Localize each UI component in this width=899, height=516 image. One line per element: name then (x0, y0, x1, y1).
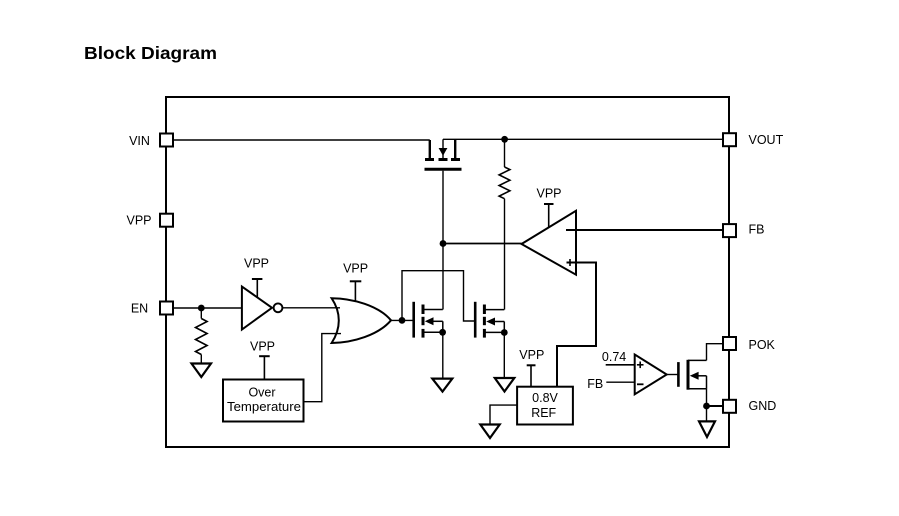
svg-text:0.74: 0.74 (602, 350, 626, 364)
wire: VIN rail left segment (174, 139, 430, 141)
svg-text:0.8V: 0.8V (532, 391, 558, 405)
svg-text:VPP: VPP (250, 340, 275, 354)
node: Q3 source/body (439, 329, 446, 336)
wire: REF ground lead (490, 405, 517, 424)
pin FB (723, 224, 736, 237)
wire: inverter output to OR gate (282, 307, 340, 309)
inverter U4 (242, 287, 272, 330)
node: gate drive junction (440, 240, 447, 247)
svg-text:VPP: VPP (244, 257, 269, 271)
wire: EN pulldown top lead (200, 308, 202, 319)
ground (GND pin) (699, 421, 715, 437)
svg-text:VPP: VPP (536, 187, 561, 201)
svg-text:Temperature: Temperature (227, 400, 301, 414)
transistor Q2 POK open-drain NMOS (678, 360, 706, 390)
transistor Q1 pass PMOS (425, 139, 462, 169)
svg-text:GND: GND (749, 399, 777, 413)
ground (EN pulldown) (192, 364, 212, 378)
wire: Q3 source to ground (442, 332, 444, 378)
wire: FB pin to U1 inverting input (566, 229, 723, 231)
wire: Q1 gate lead down to node (442, 171, 444, 244)
wire: comparator output to Q2 gate (667, 374, 679, 376)
resistor R1 (gate pull) (499, 167, 510, 199)
wire: Q2 source to GND node (706, 389, 708, 406)
ground (Q4) (495, 378, 515, 392)
node: gate split junction (399, 317, 406, 324)
svg-text:REF: REF (531, 406, 556, 420)
wire: OR output to Q3 gate (391, 319, 413, 321)
block: 0.8V REF (517, 387, 573, 425)
svg-text:VOUT: VOUT (749, 133, 784, 147)
U2 plus label (637, 362, 644, 369)
wire: resistor top lead (504, 139, 506, 167)
wire: R2 to ground (200, 355, 202, 364)
comparator U2 POK (635, 355, 667, 395)
svg-text:Over: Over (248, 386, 275, 400)
svg-text:FB: FB (587, 377, 603, 391)
block: Over Temperature (223, 380, 304, 422)
node: GND junction (703, 403, 710, 410)
pin GND (723, 400, 736, 413)
wire: Q4 source to ground (503, 333, 505, 379)
IC boundary frame (166, 97, 729, 447)
svg-text:VPP: VPP (343, 262, 368, 276)
wire: 0.74 threshold input (606, 364, 635, 366)
wire: EN pin to inverter (174, 307, 242, 309)
wire: error amp output to gate node (443, 243, 522, 245)
pin VOUT (723, 133, 736, 146)
or-gate U3 (332, 298, 391, 343)
U2 minus label (637, 383, 644, 385)
wire: resistor bottom lead to Q4 drain (504, 199, 506, 310)
svg-text:VPP: VPP (519, 348, 544, 362)
ground (Q3) (432, 379, 452, 392)
pin VPP (160, 214, 173, 227)
transistor Q3 NMOS (414, 302, 443, 338)
node: Q4 source/body (501, 329, 508, 336)
wire: U1 non-inverting input to 0.8V REF (557, 263, 596, 387)
wire: FB input to comparator (606, 381, 634, 383)
svg-text:Block Diagram: Block Diagram (84, 43, 217, 63)
pin EN (160, 302, 173, 315)
svg-text:FB: FB (749, 223, 765, 237)
wire: GND node to ground symbol (706, 406, 708, 421)
ground (REF) (480, 425, 499, 439)
pin VIN (160, 134, 173, 147)
node: VOUT/resistor junction (501, 136, 508, 143)
pin POK (723, 337, 736, 350)
U1 plus label (569, 259, 571, 266)
op-amp U1 error amplifier (522, 211, 577, 275)
node: EN junction (198, 305, 205, 312)
wire: Over Temperature to OR gate input (304, 334, 342, 402)
svg-text:VPP: VPP (126, 214, 151, 228)
wire: gate node down to Q3 drain (442, 244, 444, 310)
wire: Q2 drain to POK pin (707, 344, 724, 361)
wire: VOUT rail right segment (443, 138, 723, 140)
wire: GND node to GND pin (707, 405, 724, 407)
svg-text:EN: EN (131, 302, 148, 316)
resistor R2 EN pulldown (196, 319, 208, 355)
svg-text:VIN: VIN (129, 134, 150, 148)
svg-text:POK: POK (749, 338, 776, 352)
wire: gate split up-over to Q4 gate (402, 271, 474, 321)
transistor Q4 NMOS (475, 302, 504, 338)
